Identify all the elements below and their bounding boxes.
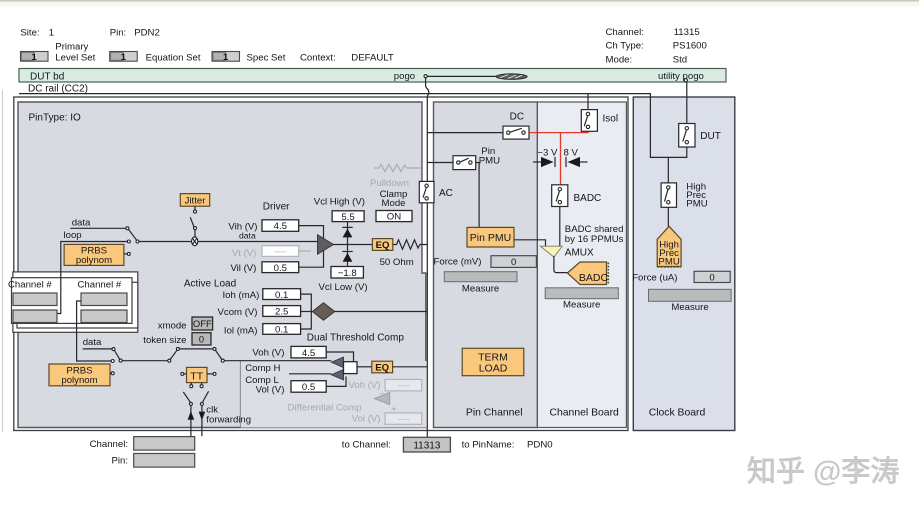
field Voh 4.5 — [291, 346, 326, 358]
svg-text:4.5: 4.5 — [302, 348, 315, 359]
svg-text:DEFAULT: DEFAULT — [351, 52, 394, 63]
svg-text:DUT bd: DUT bd — [30, 71, 64, 82]
svg-text:0: 0 — [199, 333, 204, 344]
clock board box — [633, 97, 735, 431]
svg-text:0: 0 — [511, 257, 516, 268]
field channel left 1 — [13, 293, 57, 306]
wire data stub lower — [83, 348, 112, 350]
switch clk forward right — [200, 391, 208, 405]
field Vih 4.5 — [262, 220, 299, 232]
svg-text:0: 0 — [709, 272, 714, 283]
field clamp ON — [376, 211, 412, 223]
svg-text:PinType: IO: PinType: IO — [29, 113, 81, 124]
field Vil 0.5 — [262, 262, 299, 274]
svg-text:PS1600: PS1600 — [673, 41, 707, 52]
wire pin bus to DC relay — [427, 132, 503, 134]
svg-text:----: ---- — [397, 380, 409, 390]
svg-text:Dual Threshold Comp: Dual Threshold Comp — [307, 333, 405, 344]
svg-text:Vt (V): Vt (V) — [232, 248, 257, 259]
switch jitter — [190, 206, 196, 237]
wire Ioh bracket — [301, 294, 312, 311]
field channel left 2 — [13, 310, 57, 323]
svg-text:PDN2: PDN2 — [134, 28, 160, 39]
field Vcom 2.5 — [263, 306, 301, 318]
svg-text:Comp H: Comp H — [245, 363, 280, 374]
wire xor to driver — [198, 241, 318, 243]
svg-text:Vol (V): Vol (V) — [256, 384, 285, 395]
svg-text:data: data — [72, 218, 91, 229]
svg-text:Pin Channel: Pin Channel — [466, 408, 523, 419]
svg-text:0.1: 0.1 — [275, 325, 288, 336]
wire pogo to cable — [427, 75, 496, 77]
field to channel 11313 — [403, 437, 450, 452]
wire red drop to diodes — [560, 133, 562, 185]
resistor 50 Ohm — [393, 240, 427, 249]
measure bar badc — [545, 288, 618, 299]
TERM LOAD box — [462, 348, 524, 375]
PRBS polynom box (driver) — [64, 244, 127, 266]
svg-text:token size: token size — [143, 335, 186, 346]
pin channel middle box — [434, 102, 538, 428]
svg-text:to Channel:: to Channel: — [342, 440, 391, 451]
pin type IO box — [18, 102, 426, 428]
wire pin pmu box to amux — [514, 240, 546, 247]
svg-text:1: 1 — [32, 52, 38, 63]
svg-text:ON: ON — [387, 212, 401, 223]
svg-text:Mode: Mode — [382, 198, 406, 209]
wire relay to pin pmu box — [476, 163, 479, 228]
switch lower-source selector — [111, 348, 122, 375]
High Prec PMU pentagon — [657, 226, 681, 267]
svg-text:Force (uA): Force (uA) — [632, 273, 677, 284]
channel select notch — [13, 272, 138, 332]
svg-text:Ch Type:: Ch Type: — [606, 41, 644, 52]
svg-text:0.5: 0.5 — [274, 263, 287, 274]
wire BADC relay to amux — [559, 207, 561, 247]
comparator H triangle — [331, 357, 343, 367]
comparator latch block — [344, 362, 358, 374]
wire main lower 1 — [122, 360, 168, 362]
wire DC rail to High Prec PMU relay — [667, 157, 669, 183]
svg-text:Equation Set: Equation Set — [146, 52, 201, 63]
clamp diode low — [342, 245, 352, 267]
svg-text:1: 1 — [49, 28, 54, 39]
svg-text:0.5: 0.5 — [302, 382, 315, 393]
svg-text:Driver: Driver — [263, 201, 290, 212]
EQ box driver — [372, 239, 392, 251]
svg-text:utility pogo: utility pogo — [658, 71, 704, 82]
field Vol dashes disabled — [385, 413, 422, 424]
channel select card back — [17, 282, 138, 328]
svg-text:Differential Comp: Differential Comp — [288, 402, 362, 413]
svg-text:EQ: EQ — [376, 240, 390, 251]
svg-text:PDN0: PDN0 — [527, 440, 553, 451]
wire diamond to pin bus — [335, 311, 428, 313]
svg-text:AC: AC — [439, 188, 453, 199]
svg-text:Iol (mA): Iol (mA) — [224, 325, 258, 336]
wire clk out with up arrow — [188, 405, 195, 436]
svg-text:data: data — [83, 337, 102, 348]
measure bar clock — [649, 289, 732, 301]
wire channel feed down — [77, 301, 112, 361]
wire Vil bracket — [299, 248, 324, 267]
widget spec-set spinner — [212, 52, 240, 64]
svg-text:8 V: 8 V — [564, 147, 579, 158]
Pin PMU box — [467, 227, 514, 247]
wire latch to EQ — [357, 366, 372, 368]
svg-text:AMUX: AMUX — [565, 248, 594, 259]
wire data stub — [70, 227, 126, 229]
wire comp H input — [224, 360, 331, 362]
channel board inner strip — [537, 102, 626, 428]
svg-text:Std: Std — [673, 54, 687, 65]
svg-text:Pin:: Pin: — [110, 28, 127, 39]
field Iol 0.1 — [263, 324, 301, 336]
relay Isol — [581, 94, 597, 132]
wire DC rail — [19, 94, 687, 158]
Jitter box — [180, 194, 209, 207]
wire amux to badc adc — [554, 256, 568, 273]
svg-text:forwarding: forwarding — [206, 414, 251, 425]
svg-text:OFF: OFF — [193, 318, 212, 329]
svg-text:DC: DC — [510, 111, 524, 122]
wire bypass top — [179, 348, 213, 350]
svg-text:Channel #: Channel # — [78, 280, 122, 291]
svg-text:Pulldown: Pulldown — [370, 178, 409, 189]
wire driver to EQ — [333, 244, 373, 246]
svg-text:PMU: PMU — [658, 257, 679, 268]
svg-text:Spec Set: Spec Set — [247, 52, 286, 63]
svg-text:BADC: BADC — [579, 272, 609, 284]
svg-text:by 16 PPMUs: by 16 PPMUs — [565, 234, 624, 245]
comparator L triangle — [331, 370, 343, 380]
svg-text:loop: loop — [64, 230, 82, 241]
TT box — [181, 367, 216, 382]
wire DC relay to isol (red) — [529, 131, 588, 132]
svg-text:1: 1 — [223, 52, 229, 63]
svg-text:Level Set: Level Set — [55, 52, 95, 63]
svg-text:Force (mV): Force (mV) — [434, 256, 482, 267]
wire pin bus to pin pmu relay — [427, 162, 453, 164]
wire comp L input — [289, 373, 331, 375]
diode 8V clamp — [566, 157, 588, 167]
DUT board green bar — [19, 69, 726, 83]
svg-text:Measure: Measure — [462, 283, 499, 294]
svg-text:polynom: polynom — [76, 255, 112, 266]
svg-text:50 Ohm: 50 Ohm — [380, 257, 414, 268]
wire Vcom to diamond — [301, 311, 313, 313]
svg-text:11315: 11315 — [674, 27, 700, 38]
svg-text:LOAD: LOAD — [479, 362, 508, 374]
svg-text:----: ---- — [274, 247, 286, 257]
svg-text:Channel Board: Channel Board — [550, 408, 620, 419]
field Ioh 0.1 — [263, 289, 301, 301]
field force mv 0 — [491, 256, 536, 268]
left frame line — [2, 90, 4, 432]
switch clk forward left — [183, 392, 192, 406]
relay DUT — [679, 124, 695, 148]
channel select card front — [12, 278, 133, 324]
svg-text:Isol: Isol — [603, 113, 619, 124]
svg-text:Channel #: Channel # — [8, 280, 52, 291]
relay AC — [419, 181, 434, 202]
svg-text:Vcl Low (V): Vcl Low (V) — [319, 282, 368, 293]
cable symbol — [496, 74, 527, 80]
diode -3V clamp — [533, 157, 555, 167]
svg-text:EQ: EQ — [375, 363, 389, 374]
svg-text:pogo: pogo — [394, 71, 415, 82]
TT bottom stubs — [190, 383, 203, 388]
svg-text:BADC: BADC — [574, 193, 602, 204]
wire EQ to pin bus — [393, 366, 428, 368]
wire Vol bracket — [326, 377, 346, 387]
wire loop feed — [57, 242, 127, 314]
svg-text:5.5: 5.5 — [341, 212, 354, 223]
top window band — [0, 0, 919, 2]
svg-text:data: data — [239, 231, 256, 241]
svg-text:Active Load: Active Load — [184, 279, 236, 290]
svg-text:Pin PMU: Pin PMU — [470, 232, 511, 244]
svg-text:Ioh (mA): Ioh (mA) — [223, 290, 260, 301]
differential comp triangle disabled — [374, 393, 389, 405]
channel board outer box — [14, 97, 628, 431]
svg-text:----: ---- — [397, 414, 409, 424]
field Voh dashes disabled — [385, 379, 422, 391]
field channel right 2 — [81, 310, 127, 323]
wire Voh bracket — [326, 352, 353, 362]
field channel right 1 — [81, 293, 127, 306]
wire Vt stub disabled — [299, 250, 311, 252]
svg-text:PMU: PMU — [686, 199, 707, 210]
relay DC — [503, 126, 529, 139]
field Vt dashes disabled — [262, 246, 299, 257]
svg-text:DC rail (CC2): DC rail (CC2) — [28, 84, 88, 95]
widget level-set spinner — [21, 52, 49, 64]
driver amplifier triangle — [318, 235, 334, 254]
svg-text:Vcom (V): Vcom (V) — [218, 307, 258, 318]
svg-text:Vol (V): Vol (V) — [352, 414, 381, 425]
svg-text:−: − — [379, 389, 384, 398]
active load diamond — [312, 303, 334, 321]
svg-text:2.5: 2.5 — [275, 307, 288, 318]
svg-text:polynom: polynom — [61, 375, 97, 386]
svg-text:to PinName:: to PinName: — [462, 440, 515, 451]
svg-text:−3 V: −3 V — [537, 147, 558, 158]
wire relay to hpp pentagon — [667, 207, 669, 226]
wire Iol bracket — [301, 312, 312, 330]
svg-text:Pin:: Pin: — [111, 456, 128, 467]
wire main to xor — [139, 241, 192, 243]
svg-text:Channel:: Channel: — [606, 27, 644, 38]
widget equation-set spinner — [110, 52, 138, 64]
svg-text:Primary: Primary — [55, 42, 88, 53]
svg-text:DUT: DUT — [700, 131, 721, 142]
svg-text:11313: 11313 — [413, 441, 441, 452]
EQ box comparator — [372, 361, 393, 374]
svg-text:Clock Board: Clock Board — [649, 408, 706, 419]
field Pin blank — [134, 454, 195, 468]
svg-text:xmode: xmode — [158, 320, 187, 331]
svg-text:+: + — [392, 405, 397, 414]
relay BADC — [552, 185, 568, 207]
svg-text:Channel:: Channel: — [90, 439, 128, 450]
comparator sub panel — [240, 361, 426, 428]
svg-text:Voh (V): Voh (V) — [349, 380, 381, 391]
switch TT bypass left — [168, 347, 180, 362]
xor mixer symbol — [192, 237, 198, 246]
field force ua 0 — [694, 271, 730, 283]
svg-text:0.1: 0.1 — [275, 290, 288, 301]
measure bar pin pmu — [444, 272, 517, 282]
field token size 0 — [192, 333, 211, 345]
svg-text:Vil (V): Vil (V) — [230, 263, 256, 274]
PRBS polynom box lower — [49, 364, 111, 386]
svg-text:PMU: PMU — [479, 155, 500, 166]
svg-text:−1.8: −1.8 — [338, 268, 357, 279]
wire utility pogo drop — [686, 82, 688, 124]
svg-text:Voh (V): Voh (V) — [252, 348, 284, 359]
wire Vih bracket — [299, 226, 324, 242]
wire pin bus lower — [426, 203, 428, 437]
svg-text:1: 1 — [121, 52, 127, 63]
field Vcl High 5.5 — [332, 211, 364, 223]
svg-text:Jitter: Jitter — [185, 195, 207, 206]
switch driver-source selector — [126, 227, 139, 256]
svg-text:Vcl High (V): Vcl High (V) — [314, 196, 365, 207]
clamp diode high — [342, 222, 352, 245]
wire pogo drop with jog — [426, 78, 429, 182]
amux triangle — [540, 246, 562, 257]
wire clk in with down arrow — [199, 405, 206, 436]
svg-text:Context:: Context: — [300, 52, 336, 63]
field Channel blank — [134, 437, 195, 451]
BADC adc pentagon — [567, 262, 608, 285]
svg-text:知乎 @李涛: 知乎 @李涛 — [747, 454, 899, 488]
field Vcl Low -1.8 — [331, 267, 363, 279]
svg-text:4.5: 4.5 — [274, 221, 287, 232]
svg-text:Measure: Measure — [563, 300, 600, 311]
switch TT bypass right — [213, 347, 224, 362]
relay Pin PMU — [453, 156, 476, 170]
svg-text:Mode:: Mode: — [606, 54, 633, 65]
field Vol 0.5 — [291, 381, 326, 393]
resistor pulldown disabled — [374, 164, 422, 171]
svg-text:TT: TT — [190, 371, 203, 383]
field xmode OFF — [192, 317, 213, 330]
svg-text:Measure: Measure — [671, 302, 708, 313]
relay High Prec PMU — [661, 183, 676, 207]
svg-text:Site:: Site: — [20, 28, 39, 39]
